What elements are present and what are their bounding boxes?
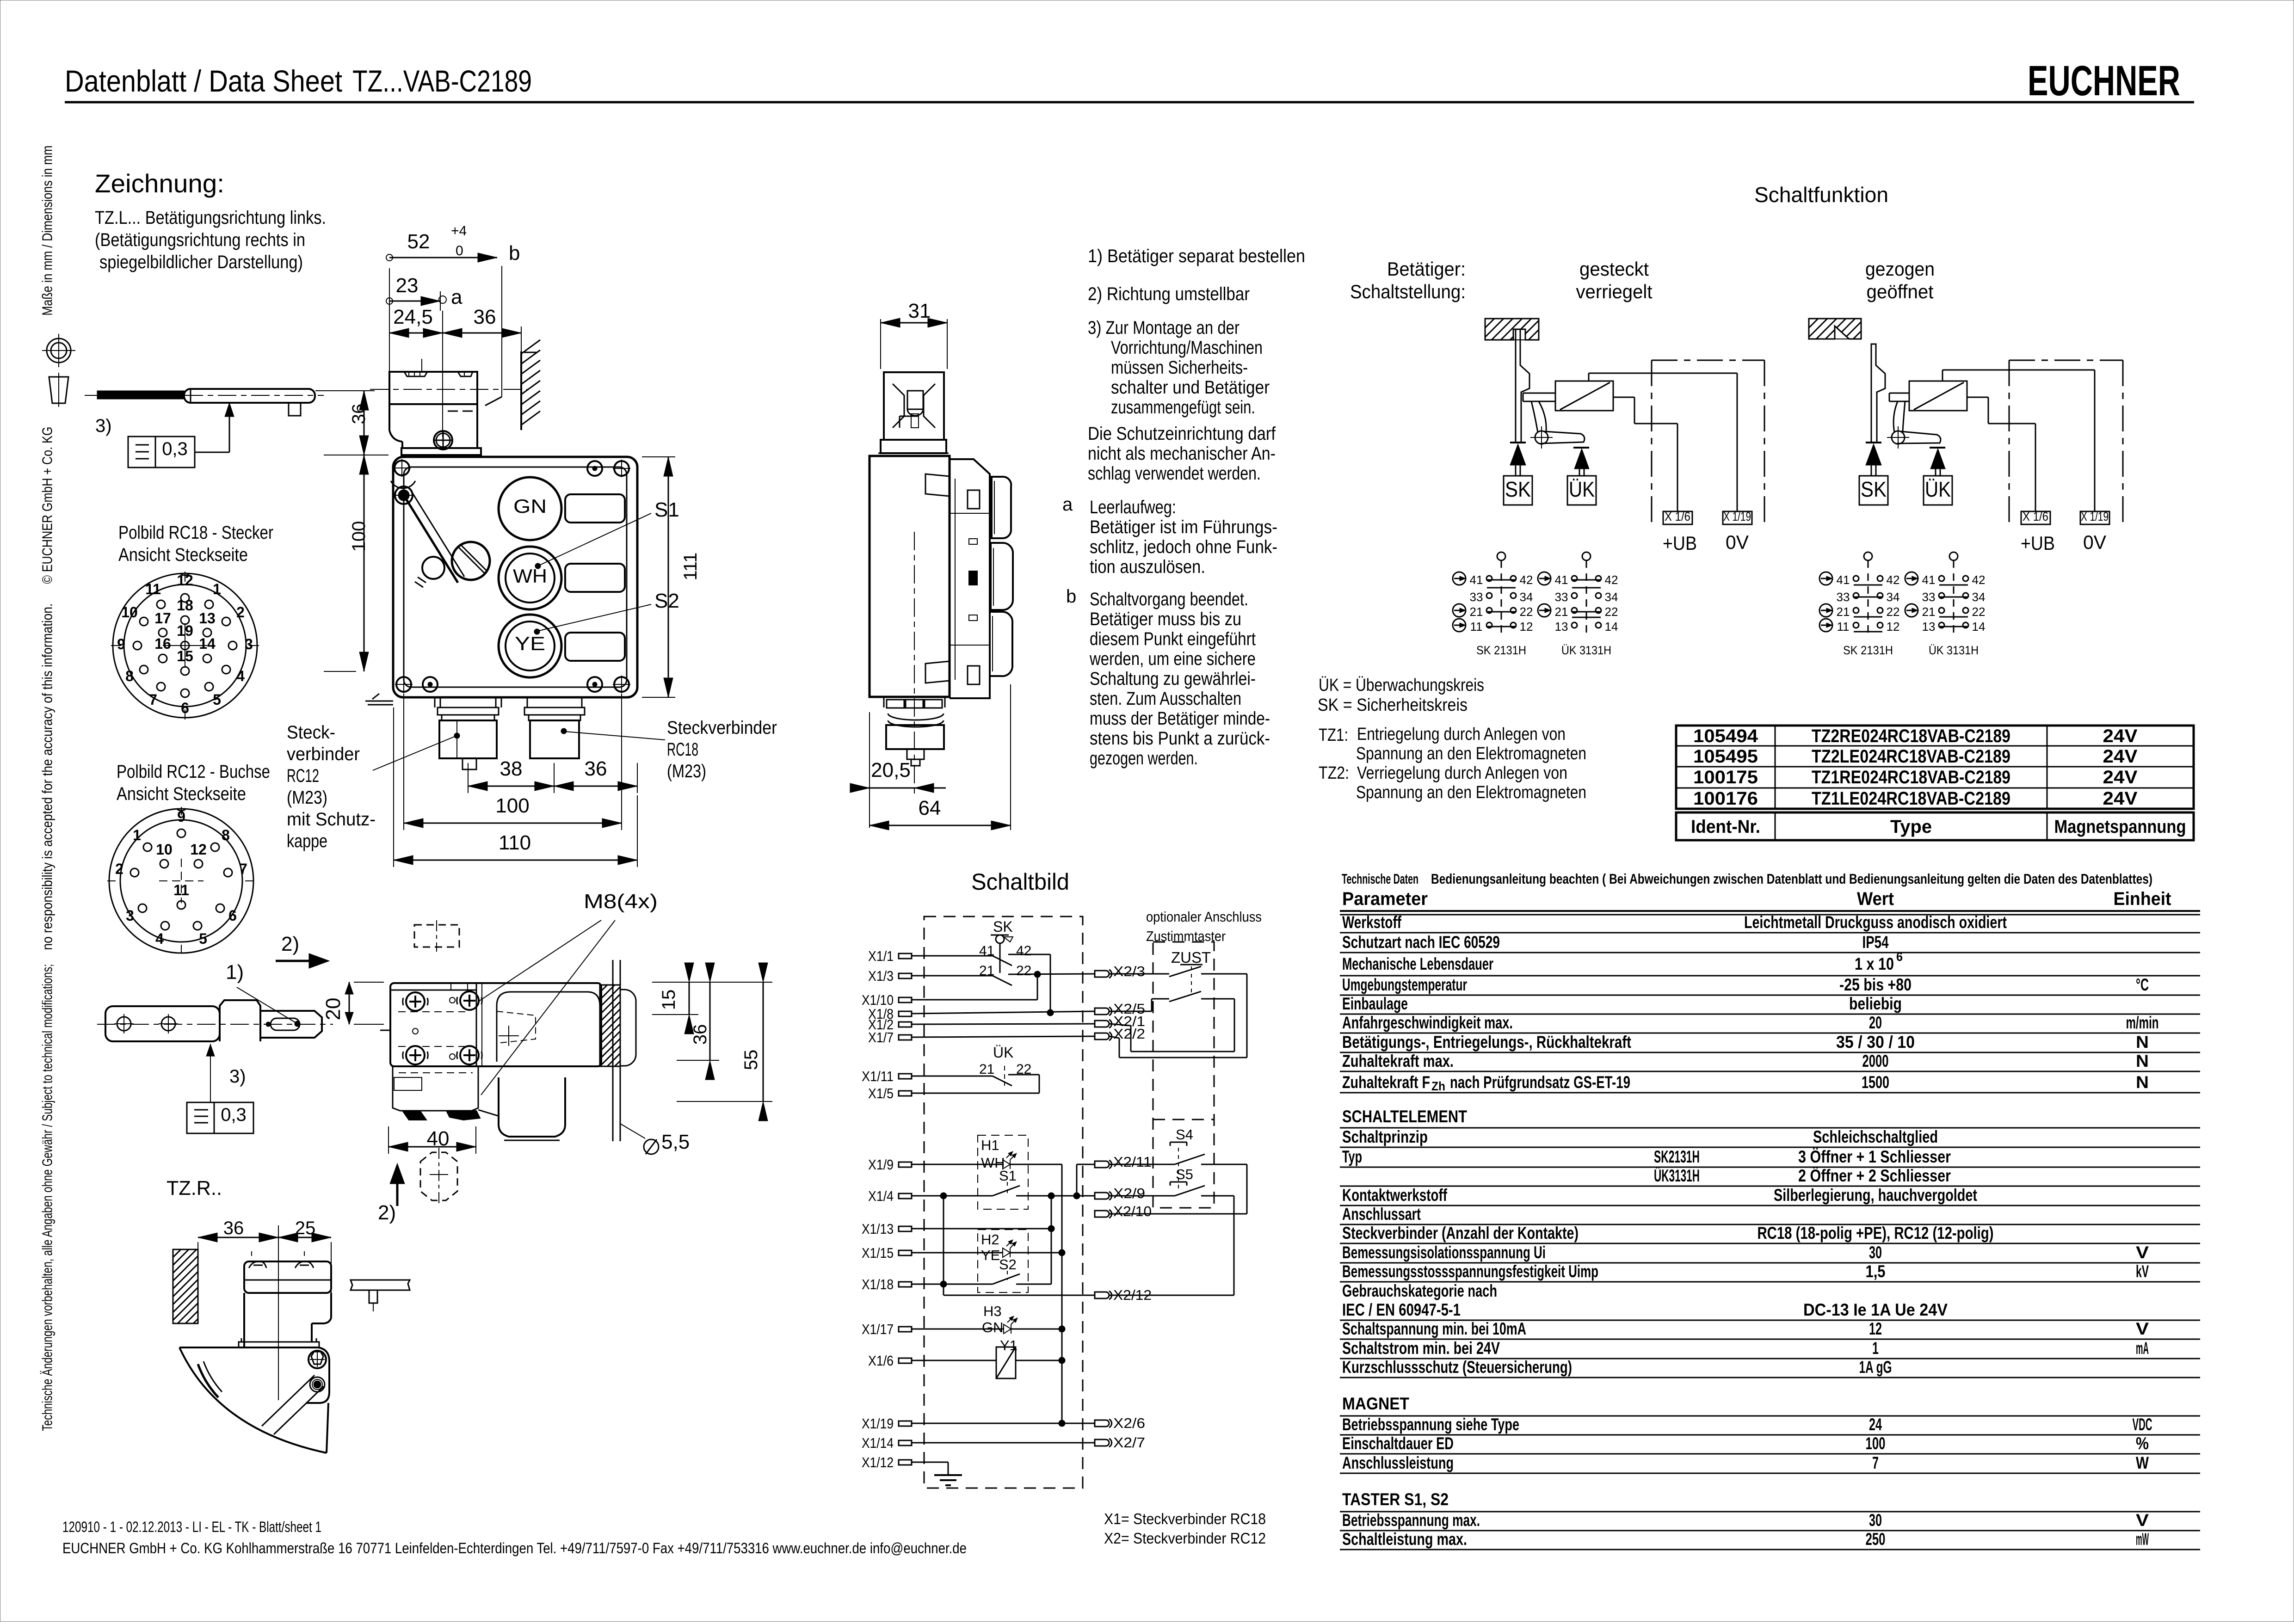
svg-text:22: 22 — [1520, 605, 1533, 619]
link and pivot — [1893, 401, 1898, 432]
svg-text:Anschlussart: Anschlussart — [1342, 1205, 1421, 1224]
svg-text:Ansicht Steckseite: Ansicht Steckseite — [117, 784, 246, 804]
terminal X1/17 — [899, 1327, 912, 1332]
svg-text:ZUST: ZUST — [1171, 949, 1211, 966]
svg-text:beliebig: beliebig — [1849, 994, 1902, 1013]
actuator hole 1 — [117, 1017, 131, 1031]
lever pivot screw — [395, 486, 413, 504]
svg-text:1: 1 — [213, 581, 221, 597]
terminal X1/6 — [899, 1358, 912, 1363]
TZ.R pivot screws — [308, 1351, 326, 1368]
svg-text:werden, um eine sichere: werden, um eine sichere — [1089, 649, 1256, 669]
tolerance leader — [195, 452, 229, 453]
svg-text:12: 12 — [177, 572, 193, 589]
svg-text:55: 55 — [741, 1050, 761, 1070]
svg-text:2) Richtung umstellbar: 2) Richtung umstellbar — [1088, 284, 1250, 304]
svg-text:Spannung an den Elektromagnete: Spannung an den Elektromagneten — [1356, 744, 1586, 763]
plunger — [1523, 393, 1555, 394]
SK pole 41-42 — [912, 955, 993, 957]
terminal X1/5 — [899, 1091, 912, 1096]
terminal X2/12 — [1095, 1292, 1109, 1298]
parts table header — [1676, 812, 2194, 840]
svg-text:1500: 1500 — [1862, 1073, 1889, 1092]
svg-text:Werkstoff: Werkstoff — [1342, 913, 1402, 932]
svg-text:Zustimmtaster: Zustimmtaster — [1146, 928, 1226, 944]
svg-text:Steckverbinder: Steckverbinder — [667, 718, 777, 738]
svg-text:Gebrauchskategorie nach: Gebrauchskategorie nach — [1342, 1281, 1497, 1300]
release lever — [404, 495, 458, 583]
svg-text:Anfahrgeschwindigkeit max.: Anfahrgeschwindigkeit max. — [1342, 1013, 1513, 1032]
svg-text:schlag verwendet werden.: schlag verwendet werden. — [1088, 463, 1261, 484]
svg-text:ÜK3131H: ÜK3131H — [1654, 1166, 1700, 1185]
svg-text:Magnetspannung: Magnetspannung — [2054, 817, 2186, 837]
svg-text:Betätiger:: Betätiger: — [1387, 258, 1466, 280]
head chamfer to b line — [485, 397, 502, 406]
plan claws — [402, 1111, 426, 1120]
plan clamp plate verticals — [612, 960, 614, 1141]
terminal X2/10 — [1095, 1211, 1109, 1217]
side centerline — [914, 532, 915, 795]
svg-text:0,3: 0,3 — [162, 439, 188, 459]
svg-text:13: 13 — [1922, 620, 1936, 634]
plan dashed ghost below — [420, 1152, 457, 1200]
svg-text:X 1/19: X 1/19 — [1723, 510, 1751, 523]
svg-text:TZ2:: TZ2: — [1319, 763, 1349, 783]
wire X1/14 X2/7 — [912, 1442, 1095, 1444]
svg-text:X2/10: X2/10 — [1113, 1203, 1152, 1219]
svg-text:X2/11: X2/11 — [1113, 1154, 1152, 1170]
bus2 vertical — [1051, 1196, 1052, 1284]
svg-text:24V: 24V — [2103, 726, 2138, 746]
svg-text:ÜK 3131H: ÜK 3131H — [1929, 643, 1979, 657]
head dashed centerline — [370, 389, 527, 390]
svg-text:10: 10 — [121, 604, 138, 621]
terminal X1/12 — [899, 1460, 912, 1465]
svg-text:3): 3) — [229, 1066, 246, 1087]
terminal X2/5 — [1095, 1008, 1109, 1015]
wire from solenoid right — [1613, 397, 1634, 398]
svg-text:Kurzschlussschutz (Steuersiche: Kurzschlussschutz (Steuersicherung) — [1342, 1358, 1572, 1377]
svg-text:34: 34 — [1887, 590, 1900, 604]
svg-text:X1/11: X1/11 — [862, 1068, 894, 1084]
svg-text:6: 6 — [1896, 950, 1903, 964]
SK pole 21-22 — [912, 975, 993, 977]
wire X1/7 to X2/2 — [912, 1036, 1095, 1037]
ground wire X1/12 — [912, 1462, 948, 1463]
wire X1/17 — [912, 1329, 1004, 1330]
svg-text:verriegelt: verriegelt — [1576, 281, 1653, 302]
head base plate — [401, 448, 481, 455]
ground tab — [365, 701, 393, 702]
svg-text:2): 2) — [378, 1201, 396, 1224]
svg-text:SK 2131H: SK 2131H — [1843, 643, 1893, 657]
svg-text:3: 3 — [126, 907, 134, 924]
plan screws M8 — [406, 992, 425, 1011]
svg-text:Umgebungstemperatur: Umgebungstemperatur — [1342, 975, 1467, 994]
head screw — [434, 431, 452, 449]
svg-text:42: 42 — [1887, 573, 1900, 587]
TZ.R flange — [239, 1342, 319, 1347]
svg-text:Typ: Typ — [1342, 1147, 1362, 1166]
TZ.R fan hatch lines — [262, 1375, 314, 1426]
svg-text:SK 2131H: SK 2131H — [1476, 643, 1526, 657]
svg-text:Schaltprinzip: Schaltprinzip — [1342, 1127, 1428, 1146]
plan dashed ghost above — [414, 925, 459, 947]
switch S1 on X1/4 — [912, 1195, 993, 1197]
svg-text:34: 34 — [1520, 590, 1533, 604]
svg-text:100175: 100175 — [1693, 767, 1758, 787]
wire X1/15 — [912, 1252, 1003, 1254]
terminal X1/19 — [899, 1421, 912, 1426]
svg-text:schalter und Betätiger: schalter und Betätiger — [1111, 377, 1270, 398]
svg-text:S1: S1 — [999, 1168, 1017, 1184]
terminal X1/1 — [899, 953, 912, 959]
svg-text:24V: 24V — [2103, 788, 2138, 809]
svg-text:(Betätigungsrichtung rechts in: (Betätigungsrichtung rechts in — [95, 230, 305, 250]
svg-text:64: 64 — [919, 797, 941, 819]
svg-text:X 1/6: X 1/6 — [1665, 510, 1690, 523]
svg-text:6: 6 — [228, 907, 237, 924]
indicator WH — [499, 547, 561, 609]
svg-text:30: 30 — [1869, 1511, 1882, 1530]
plan dashed details — [398, 1011, 465, 1012]
X1/19 terminal box — [1723, 511, 1752, 524]
svg-text:TZ1:: TZ1: — [1319, 726, 1348, 745]
svg-text:100: 100 — [1866, 1434, 1886, 1453]
svg-text:N: N — [2136, 1033, 2149, 1052]
svg-text:21: 21 — [1470, 605, 1483, 619]
zustimmtaster dashed box — [1153, 942, 1214, 1208]
svg-text:2000: 2000 — [1862, 1052, 1889, 1070]
svg-text:20,5: 20,5 — [871, 759, 911, 781]
polbild RC18 connector face — [113, 573, 257, 718]
svg-text:IP54: IP54 — [1862, 933, 1889, 952]
svg-text:X1/7: X1/7 — [868, 1029, 894, 1046]
svg-text:Anschlussleistung: Anschlussleistung — [1342, 1453, 1454, 1472]
terminal X2/1 — [1095, 1021, 1109, 1027]
svg-text:X1/18: X1/18 — [862, 1276, 894, 1292]
svg-text:W: W — [2136, 1453, 2149, 1472]
svg-text:6: 6 — [181, 700, 189, 716]
svg-text:3 Öffner + 1 Schliesser: 3 Öffner + 1 Schliesser — [1798, 1147, 1951, 1166]
svg-text:EUCHNER GmbH + Co. KG Kohlha: EUCHNER GmbH + Co. KG Kohlhammerstraße 1… — [62, 1540, 967, 1556]
svg-text:42: 42 — [1520, 573, 1533, 587]
svg-text:Leichtmetall Druckguss anodisc: Leichtmetall Druckguss anodisch oxidiert — [1744, 913, 2007, 932]
svg-text:42: 42 — [1016, 943, 1031, 959]
svg-text:zusammengefügt sein.: zusammengefügt sein. — [1111, 397, 1255, 418]
svg-text:WH: WH — [513, 565, 547, 587]
UK box — [1567, 476, 1596, 505]
svg-text:250: 250 — [1866, 1530, 1886, 1549]
svg-text:X1/1: X1/1 — [868, 948, 894, 964]
svg-text:m/min: m/min — [2126, 1013, 2159, 1032]
svg-text:MAGNET: MAGNET — [1342, 1394, 1409, 1413]
svg-text:M8(4x): M8(4x) — [584, 890, 658, 913]
svg-text:Zh: Zh — [1431, 1079, 1445, 1093]
parts table — [1676, 726, 2194, 809]
terminal X1/8 — [899, 1011, 912, 1016]
svg-text:VDC: VDC — [2133, 1415, 2152, 1434]
svg-text:X2/3: X2/3 — [1113, 963, 1145, 979]
svg-text:13: 13 — [199, 610, 216, 627]
svg-text:14: 14 — [199, 635, 216, 652]
svg-text:TZ2LE024RC18VAB-C2189: TZ2LE024RC18VAB-C2189 — [1812, 746, 2010, 767]
svg-text:30: 30 — [1869, 1243, 1882, 1262]
svg-text:10: 10 — [156, 841, 173, 858]
side view right plate — [950, 459, 990, 698]
svg-text:X1/15: X1/15 — [862, 1245, 894, 1261]
housing corner screws BL — [396, 677, 411, 692]
svg-text:Bemessungsstossspannungsfestig: Bemessungsstossspannungsfestigkeit Uimp — [1342, 1262, 1598, 1281]
wire X1/8 to X2/5 — [912, 1011, 1095, 1014]
wiring rails — [1942, 369, 2095, 371]
svg-text:Schaltstrom min. bei 24V: Schaltstrom min. bei 24V — [1342, 1339, 1500, 1358]
dim 36 vertical head — [315, 390, 375, 391]
svg-text:+UB: +UB — [2021, 532, 2055, 554]
svg-text:111: 111 — [680, 553, 701, 581]
svg-text:0,3: 0,3 — [221, 1105, 247, 1125]
actuator blade — [1516, 329, 1529, 442]
svg-text:21: 21 — [1922, 605, 1936, 619]
svg-text:22: 22 — [1016, 963, 1031, 978]
svg-text:14: 14 — [1972, 620, 1986, 634]
svg-text:22: 22 — [1972, 605, 1986, 619]
button window 1 — [565, 494, 625, 523]
svg-text:33: 33 — [1837, 590, 1850, 604]
svg-text:ÜK: ÜK — [993, 1044, 1013, 1061]
svg-text:8: 8 — [222, 827, 230, 843]
contact block ÜK 3131H — [1949, 552, 1958, 560]
svg-text:Betriebsspannung siehe Type: Betriebsspannung siehe Type — [1342, 1415, 1519, 1434]
svg-text:X1/3: X1/3 — [868, 968, 894, 984]
svg-text:Bemessungsisolationsspannung U: Bemessungsisolationsspannung Ui — [1342, 1243, 1546, 1262]
svg-text:YE: YE — [515, 633, 545, 654]
rc12 leader — [373, 736, 456, 770]
svg-text:SK: SK — [1505, 477, 1531, 501]
svg-text:7: 7 — [149, 691, 157, 708]
svg-text:kV: kV — [2136, 1262, 2149, 1281]
plan clamp hatch — [600, 985, 607, 992]
svg-text:S2: S2 — [654, 590, 679, 612]
terminal X2/9 — [1095, 1193, 1109, 1199]
svg-text:a: a — [1062, 494, 1073, 515]
svg-text:21: 21 — [1837, 605, 1850, 619]
svg-text:120910 - 1 - 02.12.2013 - LI -: 120910 - 1 - 02.12.2013 - LI - EL - TK -… — [62, 1519, 321, 1535]
svg-text:12: 12 — [1887, 620, 1900, 634]
svg-text:Technische Änderungen vorbehal: Technische Änderungen vorbehalten, alle … — [39, 964, 55, 1431]
svg-text:%: % — [2136, 1434, 2149, 1453]
svg-text:42: 42 — [1605, 573, 1618, 587]
svg-text:3) Zur Montage an der: 3) Zur Montage an der — [1088, 318, 1239, 338]
svg-text:4: 4 — [236, 668, 245, 684]
contact block SK 2131H — [1497, 552, 1505, 560]
side view main body — [869, 456, 950, 697]
svg-text:Zuhaltekraft max.: Zuhaltekraft max. — [1342, 1052, 1454, 1070]
terminal X1/18 — [899, 1282, 912, 1287]
svg-text:(M23): (M23) — [667, 761, 706, 781]
svg-text:TASTER S1, S2: TASTER S1, S2 — [1342, 1490, 1449, 1509]
svg-text:21: 21 — [979, 1062, 994, 1077]
side view top connector — [884, 372, 944, 440]
svg-text:Schaltvorgang beendet.: Schaltvorgang beendet. — [1090, 589, 1248, 609]
plan head inner — [497, 992, 600, 1062]
front view actuator bar — [184, 389, 315, 403]
svg-text:12: 12 — [1520, 620, 1533, 634]
svg-text:Betätiger muss bis zu: Betätiger muss bis zu — [1090, 609, 1241, 629]
svg-text:TZ...VAB-C2189: TZ...VAB-C2189 — [352, 64, 532, 98]
actuator boss — [220, 1000, 260, 1041]
wire X1/10 — [912, 999, 1037, 1001]
svg-text:36: 36 — [690, 1024, 710, 1045]
housing corner screw TL — [395, 461, 409, 475]
solenoid — [1909, 381, 1967, 411]
svg-text:3: 3 — [245, 636, 253, 652]
svg-text:a: a — [451, 286, 462, 308]
wall block hatched — [1485, 319, 1494, 328]
schaltbild main dashed box — [924, 917, 1083, 1488]
svg-text:36: 36 — [474, 306, 496, 328]
svg-text:X1/17: X1/17 — [862, 1321, 894, 1337]
solenoid — [1555, 381, 1613, 411]
housing inner — [404, 467, 627, 687]
svg-text:Type: Type — [1890, 817, 1932, 837]
svg-text:SK: SK — [993, 918, 1013, 935]
svg-text:Schaltstellung:: Schaltstellung: — [1350, 281, 1466, 302]
svg-text:Einheit: Einheit — [2114, 889, 2171, 909]
polbild RC18 center pin 19 — [181, 641, 189, 650]
svg-text:7: 7 — [239, 861, 247, 877]
svg-text:Datenblatt / Data Sheet: Datenblatt / Data Sheet — [65, 64, 342, 98]
housing corner screws BR — [587, 677, 602, 692]
svg-text:22: 22 — [1887, 605, 1900, 619]
margin symbol: cone — [49, 377, 68, 403]
svg-text:8: 8 — [125, 668, 134, 684]
svg-text:11: 11 — [173, 882, 189, 898]
svg-text:Schleichschaltglied: Schleichschaltglied — [1813, 1127, 1938, 1146]
dash-dot frame — [2009, 360, 2123, 361]
svg-text:Schaltspannung min. bei 10mA: Schaltspannung min. bei 10mA — [1342, 1319, 1526, 1338]
svg-text:schlitz, jedoch ohne Funk-: schlitz, jedoch ohne Funk- — [1090, 537, 1277, 557]
svg-text:S4: S4 — [1176, 1126, 1193, 1143]
svg-text:-25 bis +80: -25 bis +80 — [1839, 975, 1912, 994]
svg-text:IEC / EN 60947-5-1: IEC / EN 60947-5-1 — [1342, 1300, 1461, 1319]
svg-text:Bedienungsanleitung beachten (: Bedienungsanleitung beachten ( Bei Abwei… — [1431, 871, 2152, 887]
actuator blade — [1871, 344, 1885, 442]
side bottom connector — [883, 697, 885, 707]
svg-text:Schaltfunktion: Schaltfunktion — [1754, 183, 1888, 207]
svg-text:Steck-: Steck- — [287, 722, 335, 743]
H2 YE S2 box — [978, 1230, 1028, 1292]
side view neck — [881, 440, 946, 453]
X1/6 terminal box — [2021, 511, 2050, 524]
terminal X1/15 — [899, 1250, 912, 1255]
wall block hatched — [1809, 319, 1818, 328]
svg-text:100: 100 — [349, 521, 369, 552]
svg-text:© EUCHNER GmbH + Co. KG: © EUCHNER GmbH + Co. KG — [39, 427, 55, 584]
svg-text:Silberlegierung, hauchvergolde: Silberlegierung, hauchvergoldet — [1774, 1186, 1977, 1205]
svg-text:GN: GN — [982, 1319, 1004, 1335]
svg-text:Polbild RC18 - Stecker: Polbild RC18 - Stecker — [118, 523, 273, 543]
svg-text:optionaler Anschluss: optionaler Anschluss — [1146, 909, 1262, 925]
H1 WH S1 box — [978, 1135, 1028, 1209]
svg-text:36: 36 — [585, 757, 607, 780]
svg-text:Spannung an den Elektromagnete: Spannung an den Elektromagneten — [1356, 783, 1586, 802]
terminal X1/2 — [899, 1022, 912, 1027]
dim 111 right — [642, 456, 675, 457]
svg-text:sten. Zum Ausschalten: sten. Zum Ausschalten — [1090, 689, 1241, 709]
svg-text:18: 18 — [177, 597, 193, 614]
actuator nub — [289, 403, 301, 416]
terminal X2/7 — [1095, 1439, 1109, 1446]
svg-text:20: 20 — [322, 998, 345, 1021]
svg-text:Schaltleistung max.: Schaltleistung max. — [1342, 1530, 1467, 1549]
side small details — [969, 539, 977, 544]
svg-text:Betätiger ist im Führungs-: Betätiger ist im Führungs- — [1090, 517, 1277, 537]
actuator hole 2 — [161, 1017, 175, 1031]
svg-text:N: N — [2136, 1052, 2149, 1070]
arrow SK — [1510, 444, 1526, 465]
arrow UK — [1930, 449, 1945, 469]
svg-text:Vorrichtung/Maschinen: Vorrichtung/Maschinen — [1111, 338, 1263, 358]
svg-text:105495: 105495 — [1693, 746, 1758, 767]
svg-text:SK2131H: SK2131H — [1654, 1147, 1700, 1166]
TZ.R body — [243, 1293, 245, 1347]
contact block SK 2131H — [1864, 552, 1872, 560]
wire from solenoid right — [1967, 397, 1988, 398]
svg-text:110: 110 — [499, 831, 531, 854]
svg-text:41: 41 — [1837, 573, 1850, 587]
svg-text:Schaltbild: Schaltbild — [971, 869, 1069, 895]
terminal X1/3 — [899, 973, 912, 978]
svg-text:SCHALTELEMENT: SCHALTELEMENT — [1342, 1107, 1467, 1126]
wire X1/13 — [912, 1228, 1051, 1230]
lever arm — [1541, 431, 1585, 443]
svg-text:YE: YE — [981, 1247, 1000, 1263]
button window 3 — [565, 633, 625, 661]
svg-text:kappe: kappe — [287, 831, 327, 851]
svg-text:11: 11 — [1837, 620, 1850, 634]
indicator GN — [499, 477, 561, 540]
svg-text:diesem Punkt eingeführt: diesem Punkt eingeführt — [1090, 629, 1256, 649]
svg-text:no responsibility is accepted: no responsibility is accepted for the ac… — [39, 603, 55, 950]
bus1 vertical — [1061, 1164, 1063, 1423]
svg-text:ÜK: ÜK — [1569, 477, 1595, 501]
svg-text:11: 11 — [1470, 620, 1483, 634]
svg-text:105494: 105494 — [1693, 726, 1758, 746]
svg-text:RC18 (18-polig +PE), RC12 (12-: RC18 (18-polig +PE), RC12 (12-polig) — [1757, 1224, 1994, 1243]
svg-text:X1/4: X1/4 — [868, 1188, 894, 1204]
polbild RC12 connector face — [109, 809, 253, 953]
wire X1/2 to X2/1 — [912, 1024, 1095, 1024]
svg-text:müssen Sicherheits-: müssen Sicherheits- — [1111, 357, 1248, 378]
actuator tongue — [260, 1011, 322, 1038]
svg-text:Mechanische Lebensdauer: Mechanische Lebensdauer — [1342, 954, 1493, 973]
svg-text:X1/5: X1/5 — [868, 1085, 894, 1101]
svg-text:SK: SK — [1861, 477, 1887, 501]
svg-text:DC-13 Ie 1A Ue 24V: DC-13 Ie 1A Ue 24V — [1803, 1300, 1948, 1319]
switch S2 on X1/18 — [912, 1284, 993, 1285]
svg-text:Einbaulage: Einbaulage — [1342, 994, 1408, 1013]
svg-text:Ident-Nr.: Ident-Nr. — [1691, 817, 1760, 837]
svg-text:17: 17 — [154, 610, 171, 627]
SK box — [1504, 476, 1532, 505]
svg-text:9: 9 — [177, 808, 185, 825]
svg-text:1,5: 1,5 — [1866, 1262, 1886, 1281]
svg-text:5: 5 — [213, 691, 221, 708]
svg-text:b: b — [509, 242, 520, 265]
svg-text:mW: mW — [2136, 1530, 2149, 1549]
svg-text:X1/9: X1/9 — [868, 1156, 894, 1173]
